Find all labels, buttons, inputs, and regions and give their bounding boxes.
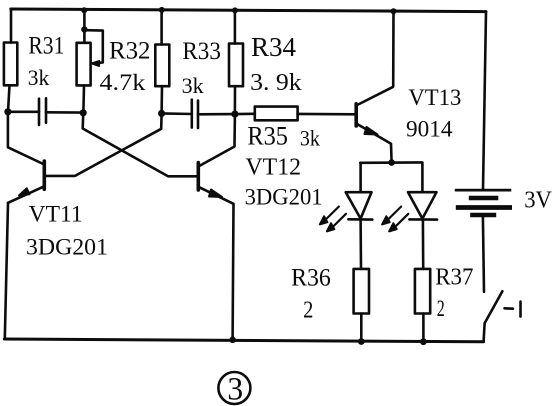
svg-text:3. 9k: 3. 9k xyxy=(250,70,302,96)
label R33 value 3k xyxy=(182,38,221,98)
svg-text:9014: 9014 xyxy=(406,117,453,142)
LED VL1 xyxy=(320,163,373,269)
svg-text:R31: R31 xyxy=(28,33,64,60)
transistor VT11 xyxy=(8,113,162,203)
node dot bottom VT12 emitter xyxy=(229,337,235,343)
resistor R34 xyxy=(229,11,243,115)
resistor R31 xyxy=(4,9,17,112)
node dot rail R32 xyxy=(81,7,87,13)
resistor R35 xyxy=(235,107,356,121)
resistor R33 xyxy=(155,10,169,113)
node dot bottom R36 xyxy=(358,338,365,345)
battery GB 3V xyxy=(455,190,512,292)
label VT13 9014 xyxy=(406,85,461,142)
node dot R32 wiper xyxy=(81,26,87,32)
label R36 value 2 xyxy=(291,265,331,324)
label R31 value 3k xyxy=(28,33,65,91)
node B R33-C2-VT11 base xyxy=(158,110,165,117)
figure caption circled 3 xyxy=(218,372,250,404)
resistor R32 rheostat xyxy=(77,11,103,113)
svg-text:R37: R37 xyxy=(435,264,473,290)
svg-text:2: 2 xyxy=(303,298,313,324)
svg-text:3k: 3k xyxy=(182,73,204,98)
svg-text:VT12: VT12 xyxy=(246,155,302,181)
label R37 value 2 xyxy=(435,264,473,321)
resistor R36 xyxy=(354,269,369,341)
transistor VT12 xyxy=(83,114,235,340)
svg-text:3DG201: 3DG201 xyxy=(245,185,323,210)
wire top supply rail xyxy=(11,9,486,12)
label battery 3V xyxy=(524,188,552,214)
wire right edge from rail to battery xyxy=(483,12,486,190)
capacitor C1 xyxy=(8,98,83,125)
node A R31-C1-VT11 collector xyxy=(4,108,11,115)
node D R34-C2-R35-VT12 collector xyxy=(231,111,238,118)
label R35 value 3k xyxy=(247,122,320,151)
svg-text:4.7k: 4.7k xyxy=(99,70,146,95)
node C C1-R32-VT12 base xyxy=(80,109,87,116)
node dot rail R34 xyxy=(232,7,238,13)
svg-text:3DG201: 3DG201 xyxy=(26,235,108,260)
svg-text:R35: R35 xyxy=(247,122,288,151)
wire left edge VT11 emitter to bottom rail xyxy=(5,203,8,339)
svg-text:VT13: VT13 xyxy=(408,85,461,110)
svg-text:R33: R33 xyxy=(182,38,221,65)
svg-text:VT11: VT11 xyxy=(29,202,83,227)
wire bottom rail xyxy=(4,339,483,342)
label VT11 3DG201 xyxy=(26,202,108,260)
svg-text:3: 3 xyxy=(227,372,243,406)
svg-text:R36: R36 xyxy=(291,265,331,292)
svg-text:R34: R34 xyxy=(251,32,296,62)
node dot rail VT13 collector xyxy=(391,8,397,14)
svg-text:3k: 3k xyxy=(300,125,320,150)
transistor VT13 xyxy=(356,12,393,163)
wire LED bus from VT13 emitter xyxy=(360,161,422,164)
svg-text:3V: 3V xyxy=(524,188,552,214)
resistor R37 xyxy=(415,269,430,342)
LED VL2 xyxy=(382,163,437,269)
label R32 value 4.7k xyxy=(99,38,150,96)
node dot rail R33 xyxy=(159,7,165,13)
svg-text:3k: 3k xyxy=(28,65,50,90)
label VT12 3DG201 xyxy=(245,155,323,210)
svg-text:R32: R32 xyxy=(109,38,151,65)
node dot bottom R37 xyxy=(420,338,427,345)
label R34 value 3.9k xyxy=(250,32,302,96)
capacitor C2 xyxy=(162,100,235,128)
node VT13 emitter LED bus xyxy=(388,159,395,166)
switch S xyxy=(484,291,521,341)
svg-text:2: 2 xyxy=(437,296,445,321)
